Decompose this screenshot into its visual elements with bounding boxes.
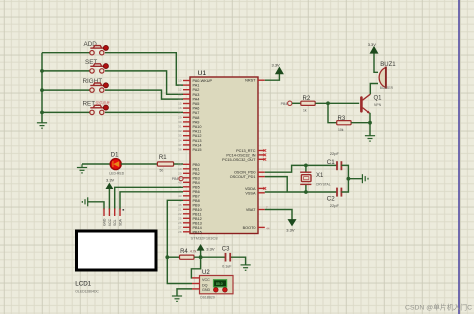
unconnected pin crosses (263, 149, 266, 190)
svg-text:OSCIN_PD0: OSCIN_PD0 (234, 171, 256, 175)
svg-text:GND: GND (202, 288, 211, 292)
svg-text:29: 29 (178, 115, 182, 119)
capacitor C1 (327, 151, 342, 170)
svg-text:STM32F103C8: STM32F103C8 (191, 236, 219, 241)
svg-text:20: 20 (178, 171, 182, 175)
svg-text:28: 28 (178, 230, 182, 234)
svg-text:PB14: PB14 (193, 226, 202, 230)
svg-text:PA1: PA1 (193, 84, 200, 88)
svg-text:33: 33 (178, 134, 182, 138)
svg-text:34: 34 (178, 138, 182, 142)
ground (button bus) (37, 123, 47, 128)
wire: 3.3V to U2 VCC (191, 257, 200, 278)
svg-text:10k: 10k (338, 128, 344, 132)
svg-text:LED-RED: LED-RED (109, 172, 124, 176)
svg-text:PB6: PB6 (193, 190, 200, 194)
svg-text:SCL: SCL (113, 219, 117, 226)
wire: OSCOUT + VSSA loop bottom (265, 177, 337, 192)
svg-text:4.7k: 4.7k (190, 250, 197, 254)
power 3.3V (OLED VCC) (106, 177, 115, 188)
svg-text:PB4: PB4 (172, 177, 179, 181)
svg-text:PA8: PA8 (193, 116, 200, 120)
svg-text:15: 15 (178, 102, 182, 106)
svg-text:VDDA: VDDA (245, 187, 256, 191)
svg-text:GND: GND (102, 218, 106, 226)
svg-text:BUZ1: BUZ1 (380, 62, 396, 68)
svg-text:VSSA: VSSA (245, 191, 256, 195)
svg-text:43: 43 (178, 194, 182, 198)
wire: collector up to buzzer (370, 53, 378, 94)
svg-text:SET: SET (85, 59, 97, 66)
svg-text:17: 17 (178, 111, 182, 115)
svg-text:14: 14 (178, 97, 182, 101)
svg-text:PB9: PB9 (193, 203, 200, 207)
svg-text:PA9: PA9 (193, 120, 200, 124)
transistor Q1 (361, 94, 382, 114)
svg-text:PA5: PA5 (193, 102, 200, 106)
wire: R4 left (167, 256, 179, 258)
svg-text:PC15-OSC32_OUT: PC15-OSC32_OUT (222, 158, 256, 162)
svg-text:PB1: PB1 (193, 167, 200, 171)
svg-text:3.3V: 3.3V (206, 246, 215, 251)
power 3.3V (R4) (197, 245, 214, 257)
LCD1 OLED display (75, 231, 156, 293)
svg-text:PB15: PB15 (193, 230, 202, 234)
svg-text:PB8: PB8 (193, 199, 200, 203)
svg-text:32: 32 (178, 129, 182, 133)
U2 pin stubs (192, 278, 200, 289)
svg-text:44: 44 (266, 226, 270, 230)
svg-text:BUZZER: BUZZER (380, 86, 394, 90)
resistor R2 (301, 96, 315, 113)
svg-text:OLED12864DC: OLED12864DC (75, 289, 99, 293)
svg-text:PA6: PA6 (193, 107, 200, 111)
svg-text:RIGHT: RIGHT (83, 78, 103, 85)
wire: R1 to PB0 (174, 163, 183, 165)
svg-text:PB11: PB11 (193, 212, 202, 216)
svg-text:PB4: PB4 (281, 102, 288, 106)
svg-text:38: 38 (178, 148, 182, 152)
svg-text:C1: C1 (327, 159, 335, 166)
wire: emitter to ground (369, 113, 371, 136)
svg-text:NPN: NPN (374, 103, 382, 107)
node: R4/3.3V junction (199, 255, 203, 259)
wire: left button bus (41, 53, 43, 123)
svg-text:R4: R4 (180, 249, 188, 255)
svg-text:PB5: PB5 (193, 185, 200, 189)
svg-text:1k: 1k (303, 109, 307, 113)
svg-text:U1: U1 (198, 70, 207, 77)
svg-text:VBAT: VBAT (246, 208, 256, 212)
wire: OLED SDA to PB6 (120, 192, 183, 210)
power 3.3V (buzzer) (368, 42, 378, 53)
svg-text:PB4: PB4 (193, 181, 200, 185)
svg-text:PA10: PA10 (193, 125, 202, 129)
wire: ADD to PA1 (42, 53, 183, 85)
svg-text:85.0: 85.0 (216, 282, 223, 286)
wire: NRST to 3.3V (265, 74, 280, 81)
svg-text:50: 50 (160, 169, 164, 173)
resistor R3 (337, 116, 351, 132)
svg-text:PA2: PA2 (193, 88, 200, 92)
svg-text:12: 12 (178, 88, 182, 92)
wire: PB4 to R2 (292, 102, 301, 104)
node: base/R3 junction (326, 101, 330, 105)
svg-text:11: 11 (178, 83, 181, 87)
wire: VBAT to 3.3V down arrow (265, 210, 292, 220)
svg-text:D1: D1 (111, 153, 119, 159)
ground (crystal, rotated) (362, 174, 368, 183)
wire: R4 right to C3/gnd (194, 257, 246, 265)
svg-text:PA0-WKUP: PA0-WKUP (193, 79, 213, 83)
capacitor C3 (222, 247, 232, 269)
wire: R3 to emitter (351, 122, 370, 124)
svg-text:C2: C2 (327, 196, 335, 203)
svg-text:16: 16 (178, 106, 182, 110)
svg-text:30: 30 (178, 120, 182, 124)
svg-text:PA3: PA3 (193, 93, 200, 97)
svg-text:22pF: 22pF (330, 151, 340, 156)
svg-text:C3: C3 (222, 247, 230, 253)
pin stubs right (258, 80, 265, 227)
wire: OLED GND pin (88, 202, 104, 210)
crystal X1 (300, 165, 331, 192)
wire: OSCIN loop top (265, 165, 337, 172)
wire: OLED SCL to PB5 (115, 187, 183, 209)
node: bus junctions (40, 69, 44, 114)
svg-text:3.3V: 3.3V (368, 42, 377, 47)
svg-text:PA11: PA11 (193, 130, 202, 134)
svg-text:DQ: DQ (202, 284, 208, 288)
power 3.3V (VBAT, down) (286, 220, 296, 233)
svg-text:37: 37 (178, 143, 182, 147)
svg-text:PB7: PB7 (193, 194, 200, 198)
wire: D1 to R1 (121, 163, 158, 165)
wire: OLED VCC pin (108, 189, 110, 210)
MCU U1 (190, 70, 258, 241)
svg-text:PC13_RTC: PC13_RTC (236, 149, 256, 153)
svg-text:Q1: Q1 (374, 96, 383, 102)
svg-text:22pF: 22pF (330, 203, 340, 208)
wire: caps right vertical (341, 165, 362, 192)
wire: junction down to R3 (328, 103, 337, 122)
sensor U2 DS18B20 (200, 270, 234, 299)
svg-text:VCC: VCC (108, 218, 112, 226)
svg-text:3.3V: 3.3V (286, 228, 295, 233)
resistor R1 (157, 155, 173, 173)
svg-text:21: 21 (178, 207, 182, 211)
power 3.3V (NRST) (272, 62, 284, 74)
pin numbers right (266, 205, 270, 230)
svg-text:PA14: PA14 (193, 143, 202, 147)
svg-text:ADD: ADD (84, 41, 98, 48)
wire: RET to PA7 (42, 111, 183, 113)
wire: SET to PA3 (42, 71, 183, 94)
button RET (83, 100, 111, 114)
capacitor C2 (327, 188, 342, 209)
svg-text:仅供参考: 仅供参考 (96, 100, 111, 105)
svg-text:DS18B20: DS18B20 (200, 295, 215, 299)
ground (LED row) (77, 164, 87, 173)
buzzer BUZ1 (379, 62, 396, 90)
watermark (405, 303, 472, 312)
resistor R4 (180, 249, 197, 259)
ground (C3) (241, 265, 251, 270)
svg-text:3.3V: 3.3V (106, 177, 115, 182)
ground (OLED gnd, rotated left) (82, 197, 87, 206)
terminal PB4 (left, near MCU) (172, 177, 183, 182)
svg-text:PA12: PA12 (193, 134, 202, 138)
svg-text:PB3: PB3 (193, 176, 200, 180)
svg-text:46: 46 (178, 203, 182, 207)
wire: gnd to D1 (82, 163, 110, 165)
svg-text:PA4: PA4 (193, 97, 200, 101)
svg-text:18: 18 (178, 162, 182, 166)
svg-text:BOOT0: BOOT0 (243, 226, 256, 230)
terminal PB4 (right) (281, 101, 292, 106)
svg-text:CRYSTAL: CRYSTAL (316, 183, 331, 187)
sheet border (458, 0, 460, 314)
svg-text:PB0: PB0 (193, 163, 200, 167)
svg-text:PB12: PB12 (193, 217, 202, 221)
svg-text:19: 19 (178, 167, 182, 171)
svg-text:VCC: VCC (202, 278, 210, 282)
pins PB0-PB15 (left) (183, 164, 190, 232)
svg-text:NRST: NRST (245, 79, 256, 83)
svg-text:PA13: PA13 (193, 139, 202, 143)
svg-text:22: 22 (178, 212, 182, 216)
svg-text:PA7: PA7 (193, 111, 200, 115)
ground (U2) (172, 296, 182, 301)
svg-text:PC14-OSC32_IN: PC14-OSC32_IN (226, 153, 255, 157)
node: DQ/R4 junction (165, 255, 169, 259)
wire: U2 GND to ground (177, 289, 192, 296)
svg-text:25: 25 (178, 216, 182, 220)
pins right side labels (222, 79, 256, 230)
button SET (85, 59, 108, 73)
svg-text:LCD1: LCD1 (75, 281, 91, 288)
LED D1 (109, 153, 124, 176)
node: cap junctions (304, 164, 350, 194)
svg-text:27: 27 (178, 225, 182, 229)
svg-text:26: 26 (178, 221, 182, 225)
svg-text:31: 31 (178, 125, 182, 129)
ground (emitter) (365, 136, 375, 141)
node: emitter junction (368, 121, 372, 125)
svg-text:PB10: PB10 (193, 208, 202, 212)
svg-text:0.1uF: 0.1uF (222, 264, 232, 268)
svg-text:R1: R1 (159, 155, 167, 161)
OLED pins (104, 209, 120, 217)
svg-text:CSDN @单片机入门C: CSDN @单片机入门C (405, 303, 472, 312)
svg-text:PB13: PB13 (193, 221, 202, 225)
wire: R2 to Q1 base (315, 102, 359, 104)
svg-text:13: 13 (178, 92, 182, 96)
svg-text:SDA: SDA (118, 218, 122, 226)
svg-text:3.3V: 3.3V (272, 62, 281, 67)
button RIGHT (83, 78, 109, 92)
svg-text:PA15: PA15 (193, 148, 202, 152)
svg-text:PB2: PB2 (193, 172, 200, 176)
svg-text:10: 10 (178, 79, 182, 83)
svg-text:X1: X1 (316, 173, 324, 179)
wire: RIGHT to PA4 (42, 90, 183, 99)
OLED pin labels (rotated) (102, 218, 122, 226)
button ADD (84, 41, 109, 55)
pins PA0-PA15 (left) (183, 81, 190, 150)
wire: DQ net PB8 to U2 (167, 200, 192, 283)
svg-text:OSCOUT_PD1: OSCOUT_PD1 (230, 175, 256, 179)
